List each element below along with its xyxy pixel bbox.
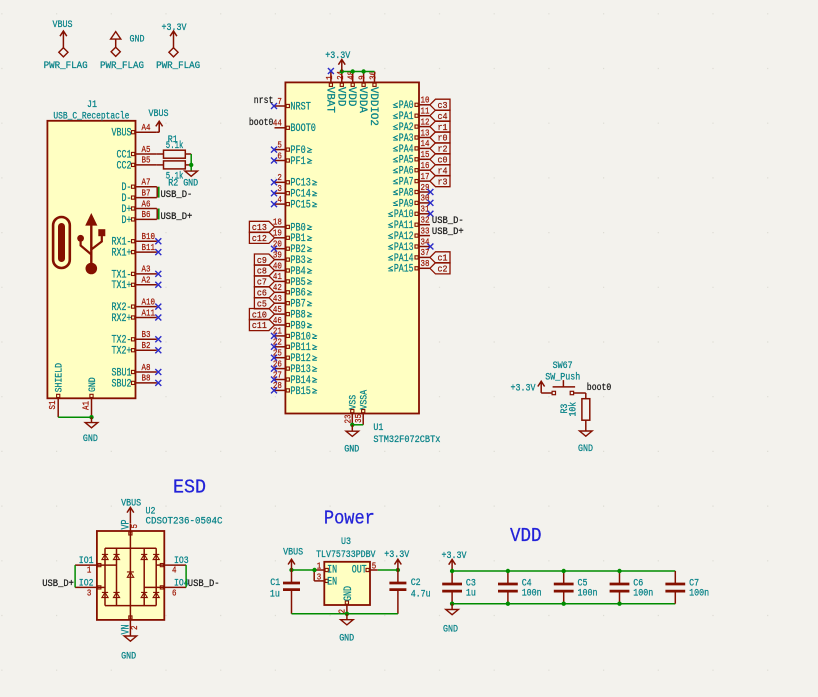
svg-text:USB_D+: USB_D+ — [161, 212, 193, 223]
svg-text:VBAT: VBAT — [323, 87, 335, 113]
wire OUT to +3.3V — [378, 569, 398, 571]
svg-text:B11: B11 — [142, 243, 156, 253]
svg-text:VSS: VSS — [349, 395, 360, 410]
svg-text:TLV75733PDBV: TLV75733PDBV — [316, 550, 375, 561]
wire IO3-IO4 — [185, 565, 187, 587]
junction at A1 — [89, 415, 93, 419]
TVS diode — [102, 592, 108, 597]
svg-text:VBUS: VBUS — [53, 20, 73, 31]
U2 pin 1 IO1 — [75, 556, 101, 576]
hierarchical label c2 — [430, 263, 450, 275]
svg-text:BOOT0: BOOT0 — [290, 123, 316, 135]
svg-text:c12: c12 — [252, 234, 267, 244]
svg-text:VSSA: VSSA — [360, 390, 371, 410]
svg-text:+3.3V: +3.3V — [384, 550, 409, 561]
U2 pin 6 IO4 — [160, 578, 188, 598]
hierarchical label c10 — [249, 309, 274, 321]
junction C5 bottom — [562, 602, 566, 606]
U1 pin 35 VSSA — [354, 390, 370, 425]
U2 pin 2 VN — [121, 616, 141, 636]
J1 pin A11 RX2+ (no connect) — [112, 308, 162, 325]
junction R2-GND — [189, 163, 193, 167]
U1 pin 21 PB10 (no connect) — [271, 327, 317, 344]
svg-text:31: 31 — [421, 205, 430, 215]
svg-text:10k: 10k — [567, 402, 579, 417]
U2 pin 3 IO2 — [75, 578, 101, 598]
svg-text:A1: A1 — [81, 401, 91, 410]
ground at J1 — [83, 417, 98, 445]
svg-text:B2: B2 — [142, 341, 151, 351]
J1 pin B11 RX1+ (no connect) — [112, 243, 162, 260]
svg-text:A8: A8 — [142, 363, 151, 373]
svg-text:PA15: PA15 — [394, 264, 414, 276]
wire +3.3V rail to VDD pins — [342, 71, 375, 73]
power +3.3V at U3 — [384, 550, 409, 570]
svg-text:c2: c2 — [438, 265, 448, 275]
resistor R2 5.1k — [157, 161, 191, 190]
svg-text:VBUS: VBUS — [283, 548, 303, 559]
U1 pin 44 BOOT0 — [273, 119, 316, 136]
switch SW67 SW_Push — [541, 361, 586, 395]
svg-text:34: 34 — [421, 237, 430, 247]
svg-text:SHIELD: SHIELD — [55, 363, 66, 392]
junction ground U3 — [345, 612, 349, 616]
svg-text:A4: A4 — [142, 123, 151, 133]
svg-text:A10: A10 — [142, 297, 156, 307]
capacitor C2 4.7u — [389, 570, 430, 614]
U2 internal diode network — [97, 531, 164, 620]
svg-text:VBUS: VBUS — [121, 498, 141, 509]
J1 pin A8 SBU1 (no connect) — [112, 363, 162, 380]
no-connect VBAT — [328, 68, 334, 74]
U1 pin 2 PC13 (no connect) — [271, 173, 317, 190]
U1 pin 34 PA13 (no connect) — [388, 237, 433, 254]
svg-text:3: 3 — [87, 588, 92, 598]
wire S1 to A1 ground — [58, 416, 91, 418]
svg-text:VDD: VDD — [510, 525, 542, 547]
junction C6 bottom — [617, 602, 621, 606]
hierarchical label c5 — [254, 298, 274, 310]
svg-text:1u: 1u — [270, 589, 280, 600]
svg-text:r3: r3 — [438, 177, 448, 187]
svg-text:Power: Power — [324, 508, 375, 530]
junction VSS — [350, 423, 354, 427]
TVS diode — [113, 554, 119, 559]
hierarchical label c4 — [430, 110, 450, 122]
capacitor C6 100n — [610, 571, 654, 604]
resistor R3 10k — [560, 399, 590, 421]
capacitor C5 100n — [554, 571, 598, 604]
J1 pin A3 TX1- (no connect) — [112, 265, 162, 282]
wire VDD top rail — [452, 570, 675, 572]
svg-text:EN: EN — [327, 576, 337, 588]
J1 pin S1 SHIELD — [48, 363, 66, 417]
svg-text:PWR_FLAG: PWR_FLAG — [44, 61, 88, 72]
svg-text:VDDIO2: VDDIO2 — [367, 87, 379, 126]
svg-text:PF1: PF1 — [290, 156, 306, 168]
J1 pin B10 RX1- (no connect) — [112, 232, 162, 249]
svg-text:35: 35 — [354, 414, 364, 423]
J1 pin B3 TX2- (no connect) — [112, 330, 162, 347]
svg-text:16: 16 — [421, 161, 430, 171]
svg-text:1: 1 — [87, 566, 92, 576]
svg-text:9: 9 — [358, 75, 368, 80]
svg-text:NRST: NRST — [290, 101, 311, 113]
U1 pin 42 PB6 — [273, 283, 312, 300]
J1 pin A10 RX2- (no connect) — [112, 297, 162, 314]
svg-text:1: 1 — [317, 562, 322, 572]
hierarchical label c9 — [254, 254, 274, 266]
svg-text:TX1+: TX1+ — [112, 280, 132, 292]
J1 pin B7 D- — [122, 188, 157, 205]
svg-text:33: 33 — [421, 226, 430, 236]
ground at U2 — [121, 636, 137, 662]
hierarchical label r2 — [430, 143, 450, 155]
U1 pin 22 PB11 (no connect) — [271, 338, 317, 355]
U1 pin 24 VDD — [334, 71, 346, 107]
svg-text:GND: GND — [88, 377, 99, 392]
svg-text:USB_D+: USB_D+ — [432, 227, 464, 238]
U1 pin 11 PA1 — [393, 107, 430, 124]
TVS diode — [102, 554, 108, 559]
connector J1 USB_C_Receptacle body — [47, 100, 135, 398]
svg-text:44: 44 — [273, 119, 282, 129]
svg-text:100n: 100n — [522, 589, 542, 600]
svg-text:U3: U3 — [341, 537, 351, 548]
svg-text:C2: C2 — [411, 578, 421, 589]
wire D- pair — [157, 187, 159, 198]
junction C5 top — [562, 569, 566, 573]
U1 pin 38 PA15 — [388, 259, 430, 276]
power +3.3V at VDD rail — [442, 551, 467, 571]
wire ground rail power section — [292, 613, 398, 615]
U3 pin 3 EN — [314, 572, 337, 588]
U1 pin 20 PB2 (no connect) — [271, 240, 312, 257]
U1 pin 16 PA6 — [393, 161, 430, 178]
svg-text:13: 13 — [421, 128, 430, 138]
U1 pin 7 NRST — [271, 97, 311, 114]
MCU U1 STM32F072CBTx body — [285, 82, 419, 413]
svg-text:5: 5 — [372, 562, 377, 572]
U1 pin 43 PB7 — [273, 294, 312, 311]
power flag +3.3V — [156, 23, 200, 72]
J1 pin A5 CC1 — [117, 145, 157, 162]
svg-text:RX1+: RX1+ — [112, 248, 132, 260]
U1 pin 37 PA14 — [388, 248, 430, 265]
hierarchical label r0 — [430, 132, 450, 144]
svg-text:B3: B3 — [142, 330, 151, 340]
svg-text:14: 14 — [421, 139, 430, 149]
wire R1/R2 to GND — [190, 154, 192, 171]
TVS diode array U2 CDSOT236-0504C body — [97, 507, 223, 620]
svg-text:A7: A7 — [142, 178, 151, 188]
U1 pin 5 PF0 (no connect) — [271, 140, 312, 157]
svg-text:32: 32 — [421, 216, 430, 226]
svg-text:R2: R2 — [168, 179, 178, 190]
svg-text:SBU2: SBU2 — [112, 378, 132, 390]
svg-text:5.1k: 5.1k — [166, 140, 184, 152]
svg-text:GND: GND — [578, 444, 593, 455]
power VBUS at U2 — [121, 498, 141, 523]
ground at R2 — [183, 171, 198, 189]
svg-text:B7: B7 — [142, 188, 151, 198]
svg-text:USB_C_Receptacle: USB_C_Receptacle — [53, 111, 129, 123]
J1 pin A4 VBUS — [112, 123, 157, 140]
svg-text:37: 37 — [421, 248, 430, 258]
TVS diode — [141, 592, 147, 597]
svg-text:12: 12 — [421, 117, 430, 127]
U1 pin 9 VDDA — [356, 72, 368, 114]
svg-text:GND: GND — [443, 625, 458, 636]
zener diode center — [127, 572, 134, 577]
U3 pin 2 GND — [338, 586, 355, 614]
capacitor C1 1u — [270, 570, 300, 614]
TVS diode — [141, 554, 147, 559]
U1 pin 12 PA2 — [393, 117, 430, 134]
resistor R1 5.1k — [157, 135, 191, 158]
svg-text:+3.3V: +3.3V — [325, 51, 350, 62]
junction C6 top — [617, 569, 621, 573]
ground at U1 — [344, 425, 359, 456]
U1 pin 6 PF1 (no connect) — [271, 151, 312, 168]
svg-text:CC2: CC2 — [117, 160, 132, 172]
capacitor C3 1u — [442, 571, 476, 604]
wire VBUS to IN — [292, 569, 315, 571]
svg-text:100n: 100n — [633, 589, 653, 600]
wire R3 to GND — [585, 420, 587, 431]
svg-text:11: 11 — [421, 107, 430, 117]
power +VBUS at J1 — [149, 109, 169, 132]
power flag GND — [100, 32, 145, 72]
U1 pin 30 PA9 (no connect) — [393, 194, 433, 211]
U1 pin 15 PA5 — [393, 150, 430, 167]
svg-text:c11: c11 — [252, 321, 267, 331]
svg-text:CDSOT236-0504C: CDSOT236-0504C — [146, 517, 223, 528]
svg-text:A5: A5 — [142, 145, 151, 155]
svg-text:boot0: boot0 — [249, 117, 274, 129]
power +3.3V at U1 — [325, 51, 350, 72]
svg-text:GND: GND — [83, 434, 98, 445]
svg-text:A11: A11 — [142, 308, 156, 318]
U1 pin 28 PB15 (no connect) — [271, 381, 317, 398]
svg-text:10: 10 — [421, 96, 430, 106]
svg-text:4: 4 — [277, 195, 282, 205]
J1 pin A6 D+ — [122, 199, 157, 216]
svg-text:VDDA: VDDA — [356, 87, 368, 113]
svg-text:GND: GND — [183, 179, 198, 190]
svg-text:IN: IN — [327, 565, 337, 577]
U3 pin 5 OUT — [352, 562, 378, 577]
capacitor C4 100n — [498, 571, 542, 604]
TVS diode — [153, 554, 159, 559]
wire SW67 to R3 — [585, 393, 587, 399]
svg-text:nrst: nrst — [254, 96, 274, 107]
J1 pin B8 SBU2 (no connect) — [112, 374, 162, 391]
U1 pin 10 PA0 — [393, 96, 430, 113]
TVS diode — [153, 592, 159, 597]
wire EN to IN — [313, 570, 315, 581]
U1 pin 27 PB14 (no connect) — [271, 370, 317, 387]
svg-text:A2: A2 — [142, 276, 151, 286]
wire VSSA to VSS — [352, 424, 363, 426]
power +3.3V at SW67 — [511, 381, 545, 394]
U1 reference and value — [373, 423, 440, 446]
junction C3 top — [450, 569, 454, 573]
ground at VDD rail — [443, 604, 458, 636]
svg-text:GND: GND — [344, 445, 359, 456]
wire VDD bottom rail — [452, 603, 675, 605]
junction at C2 — [396, 568, 400, 572]
power flag VBUS — [44, 20, 88, 72]
svg-text:17: 17 — [421, 172, 430, 182]
svg-text:boot0: boot0 — [587, 382, 612, 394]
hierarchical label c3 — [430, 99, 450, 111]
svg-text:2: 2 — [277, 173, 282, 183]
svg-text:GND: GND — [130, 35, 145, 46]
svg-text:PWR_FLAG: PWR_FLAG — [100, 61, 144, 72]
svg-text:PWR_FLAG: PWR_FLAG — [156, 61, 200, 72]
hierarchical label r4 — [430, 165, 450, 177]
U1 pin 46 PB9 — [273, 316, 312, 333]
svg-text:GND: GND — [121, 651, 136, 662]
svg-text:23: 23 — [343, 415, 353, 424]
junction IN — [312, 568, 316, 572]
svg-text:VDD: VDD — [334, 87, 346, 107]
U1 pin 19 PB1 — [273, 229, 312, 246]
svg-text:C1: C1 — [270, 578, 280, 589]
hierarchical label r1 — [430, 121, 450, 133]
junction VDD — [340, 69, 344, 73]
U1 pin 18 PB0 — [273, 218, 312, 235]
svg-text:USB_D-: USB_D- — [161, 190, 193, 201]
svg-text:PB15: PB15 — [290, 386, 310, 398]
U3 pin 1 IN — [315, 562, 338, 577]
svg-text:B10: B10 — [142, 232, 156, 242]
U1 pin 31 PA10 (no connect) — [388, 205, 433, 222]
U2 pin 4 IO3 — [160, 556, 188, 576]
U1 pin 13 PA3 — [393, 128, 430, 145]
U1 pin 25 PB12 (no connect) — [271, 349, 317, 366]
U1 pin 23 VSS — [343, 395, 359, 425]
svg-text:3: 3 — [317, 572, 322, 582]
svg-text:38: 38 — [421, 259, 430, 269]
junction VDD2 — [351, 69, 355, 73]
svg-text:B5: B5 — [142, 156, 151, 166]
svg-text:SW67: SW67 — [553, 361, 573, 372]
svg-text:RX2+: RX2+ — [112, 313, 132, 325]
svg-text:GND: GND — [343, 586, 355, 601]
junction C4 top — [506, 569, 510, 573]
hierarchical label c0 — [430, 154, 450, 166]
J1 pin B5 CC2 — [117, 156, 157, 173]
U1 pin 39 PB3 — [273, 250, 312, 267]
svg-text:7: 7 — [277, 97, 282, 107]
svg-text:6: 6 — [172, 588, 177, 598]
svg-text:15: 15 — [421, 150, 430, 160]
svg-text:A3: A3 — [142, 265, 151, 275]
wire IO1-IO2 — [74, 565, 76, 587]
U1 pin 17 PA7 — [393, 172, 430, 189]
U1 pin 1 VBAT — [323, 72, 335, 114]
U1 pin 36 VDDIO2 — [367, 71, 379, 126]
svg-text:30: 30 — [421, 194, 430, 204]
J1 pin A1 GND — [81, 377, 99, 417]
svg-text:USB_D-: USB_D- — [188, 579, 220, 590]
U1 pin 45 PB8 — [273, 305, 312, 322]
svg-text:OUT: OUT — [352, 565, 367, 577]
svg-text:1: 1 — [325, 75, 335, 80]
hierarchical label c12 — [249, 232, 274, 244]
U1 pin 32 PA11 — [388, 216, 430, 233]
USB trident logo — [77, 213, 105, 274]
hierarchical label r3 — [430, 176, 450, 188]
hierarchical label c6 — [254, 287, 274, 299]
hierarchical label c8 — [254, 265, 274, 277]
svg-text:STM32F072CBTx: STM32F072CBTx — [373, 435, 440, 446]
U1 pin 4 PC15 (no connect) — [271, 195, 317, 212]
svg-text:S1: S1 — [48, 401, 58, 410]
svg-text:PC15: PC15 — [290, 200, 310, 212]
svg-text:100n: 100n — [689, 589, 709, 600]
svg-text:VN: VN — [121, 625, 133, 635]
svg-text:+3.3V: +3.3V — [442, 551, 467, 562]
junction C4 bottom — [506, 602, 510, 606]
svg-text:ESD: ESD — [173, 477, 206, 499]
svg-text:D+: D+ — [122, 215, 132, 227]
J1 pin B6 D+ — [122, 210, 157, 227]
svg-text:5: 5 — [277, 140, 282, 150]
J1 pin B2 TX2+ (no connect) — [112, 341, 162, 358]
svg-text:J1: J1 — [87, 100, 97, 111]
svg-text:6: 6 — [277, 151, 282, 161]
svg-text:TX2+: TX2+ — [112, 346, 132, 358]
svg-text:GND: GND — [339, 633, 354, 644]
svg-text:4.7u: 4.7u — [411, 589, 431, 600]
TVS diode — [113, 592, 119, 597]
USB-C plug outline glyph — [53, 217, 70, 268]
hierarchical label c11 — [249, 319, 274, 331]
U1 pin 29 PA8 (no connect) — [393, 183, 433, 200]
wire D+ pair — [157, 209, 159, 220]
J1 pin A7 D- — [122, 178, 157, 195]
U1 pin 33 PA12 — [388, 226, 430, 243]
hierarchical label c1 — [430, 252, 450, 264]
U1 pin 48 VDD — [345, 71, 357, 107]
svg-text:4: 4 — [172, 566, 177, 576]
svg-text:100n: 100n — [578, 589, 598, 600]
svg-text:USB_D+: USB_D+ — [42, 579, 74, 590]
svg-text:A6: A6 — [142, 199, 151, 209]
capacitor C7 100n — [665, 571, 709, 604]
svg-text:U1: U1 — [373, 423, 383, 434]
hierarchical label c13 — [249, 221, 274, 233]
U1 pin 3 PC14 (no connect) — [271, 184, 317, 201]
svg-text:VBUS: VBUS — [149, 109, 169, 120]
junction VDDA — [361, 69, 365, 73]
svg-text:B6: B6 — [142, 210, 151, 220]
U2 pin 5 VP — [121, 519, 141, 535]
svg-text:29: 29 — [421, 183, 430, 193]
ground at U3 — [339, 614, 354, 645]
power VBUS at U3 — [283, 548, 303, 571]
junction at C1 — [289, 568, 293, 572]
wire VBUS to power symbol — [157, 122, 159, 132]
svg-text:3: 3 — [277, 184, 282, 194]
svg-text:USB_D-: USB_D- — [432, 216, 464, 227]
svg-text:VBUS: VBUS — [112, 128, 132, 140]
ground at R3 — [578, 431, 593, 455]
U1 pin 14 PA4 — [393, 139, 430, 156]
